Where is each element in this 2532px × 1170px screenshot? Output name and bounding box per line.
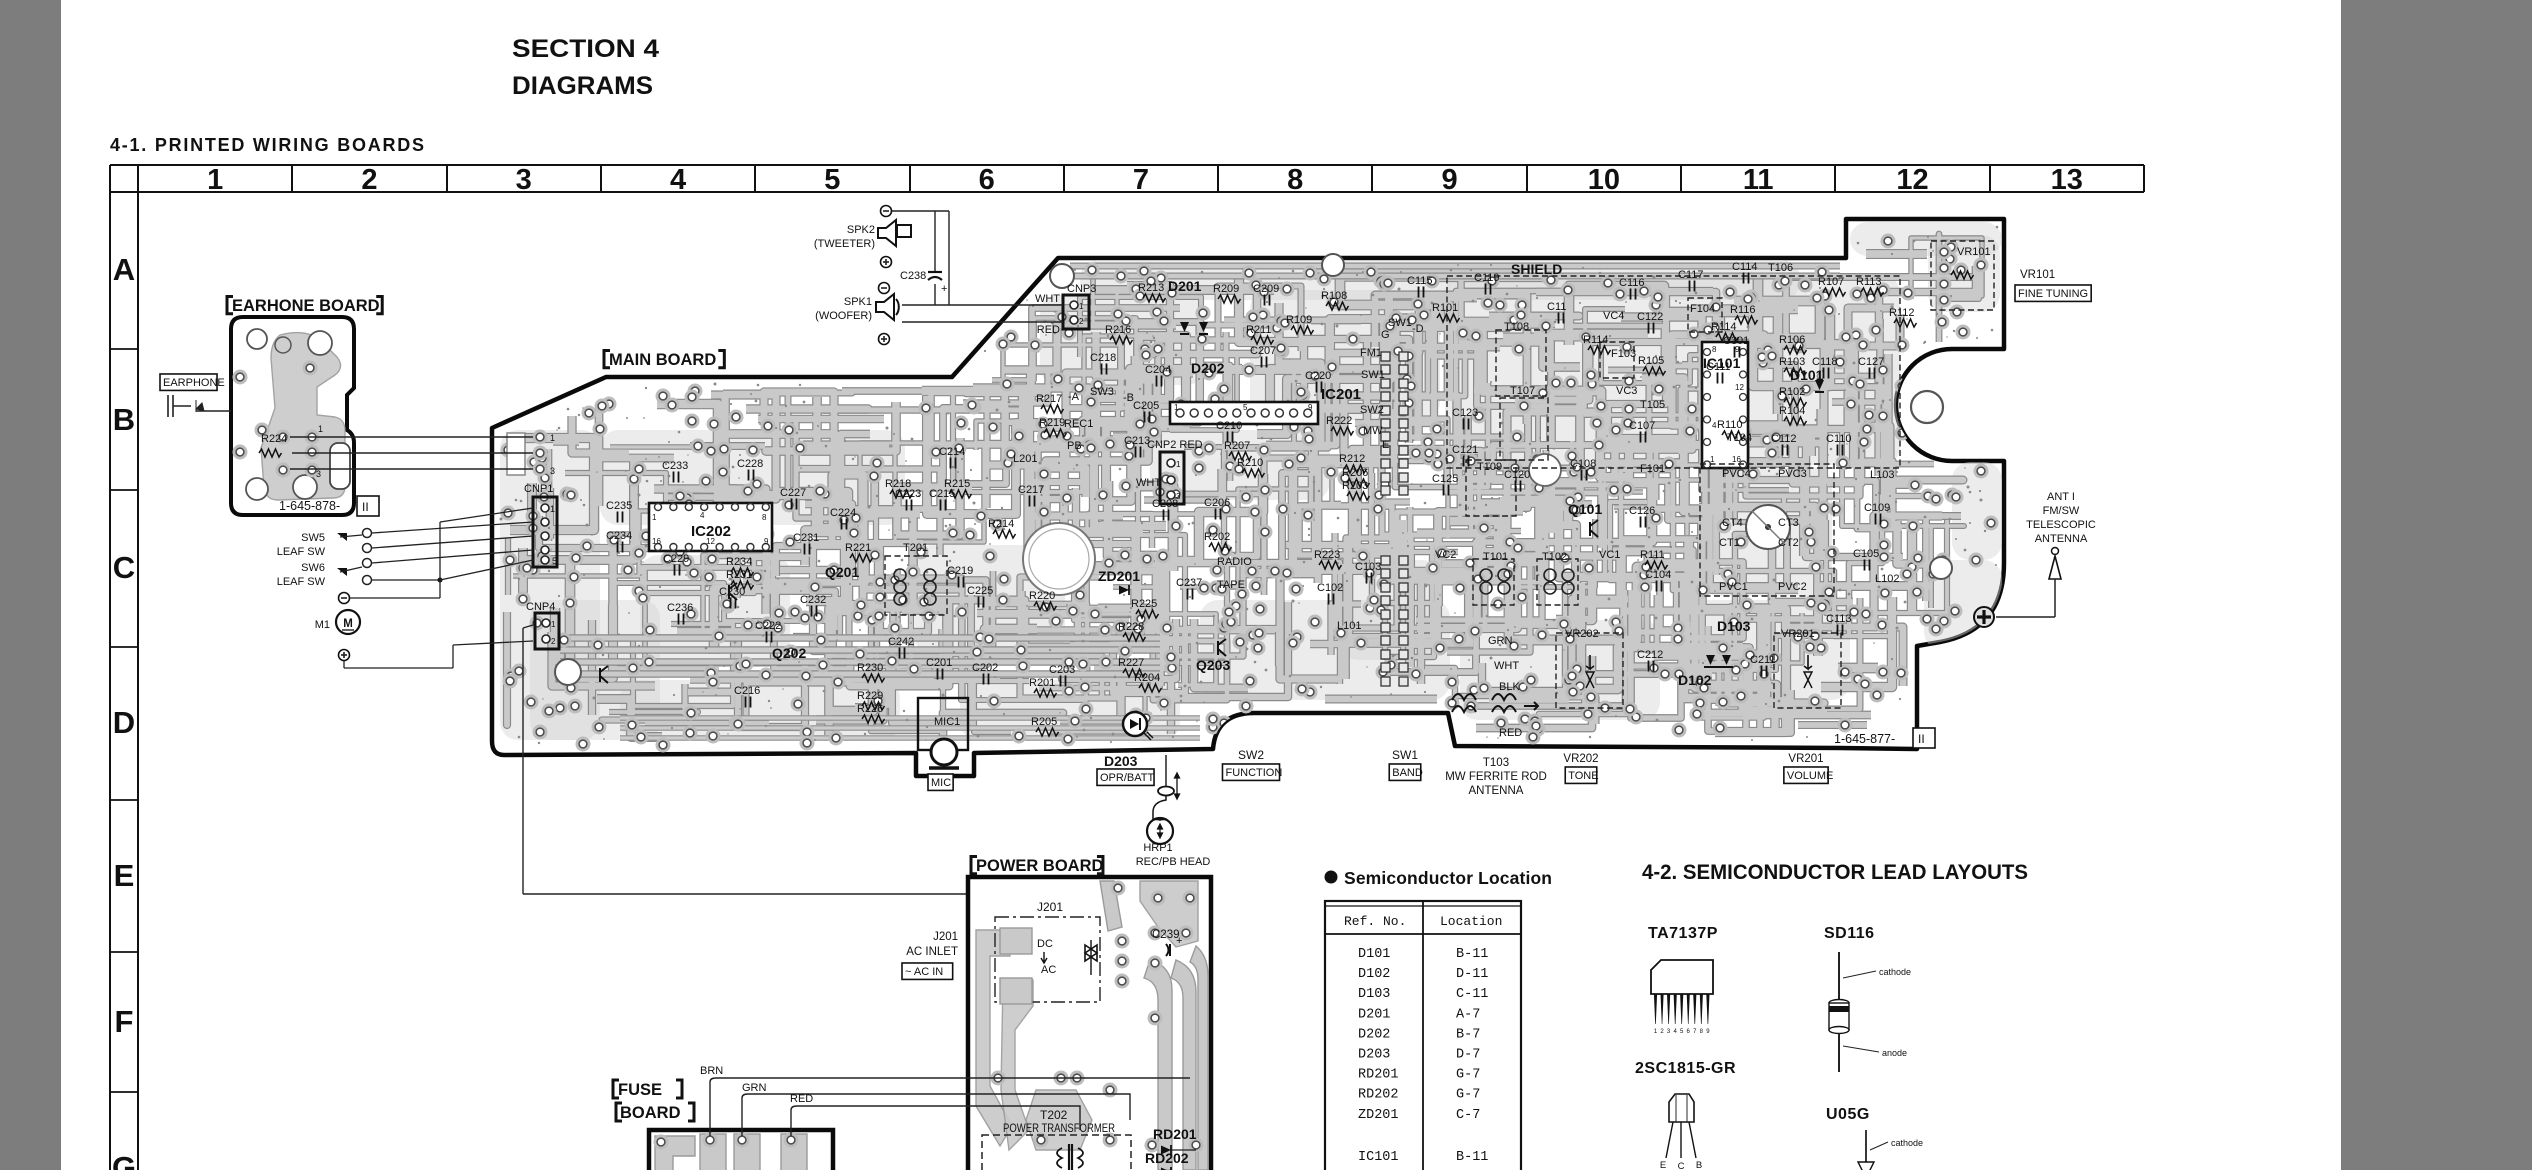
- svg-text:FM1: FM1: [1360, 347, 1382, 359]
- J201 dash-dot box: [995, 917, 1100, 1002]
- svg-text:C126: C126: [1629, 505, 1655, 517]
- power board title: [971, 856, 977, 873]
- svg-text:3: 3: [550, 466, 555, 476]
- svg-text:C214: C214: [939, 446, 965, 458]
- connector CNP3: [1063, 295, 1089, 329]
- svg-text:C11: C11: [1547, 301, 1566, 313]
- VR101 dashed box: [1931, 241, 1994, 310]
- large hole center speaker area: [1023, 523, 1095, 595]
- EARPHONE jack label: [160, 374, 217, 390]
- potentiometer VR202 dashed box: [1556, 633, 1623, 708]
- svg-text:GRN: GRN: [1488, 635, 1513, 647]
- power board copper areas: [976, 881, 1208, 1170]
- svg-text:T106: T106: [1768, 262, 1793, 274]
- svg-text:RD202: RD202: [1358, 1088, 1399, 1103]
- svg-text:-A: -A: [1068, 391, 1080, 403]
- speckle dots: [500, 226, 1999, 748]
- svg-text:RED: RED: [1037, 324, 1060, 336]
- svg-text:VR202: VR202: [1565, 628, 1599, 640]
- svg-text:R101: R101: [1432, 302, 1458, 314]
- svg-text:1: 1: [1174, 403, 1179, 412]
- svg-text:8: 8: [762, 513, 767, 522]
- svg-text:LEAF SW: LEAF SW: [277, 576, 326, 588]
- svg-text:BRN: BRN: [700, 1065, 723, 1077]
- svg-text:5: 5: [824, 164, 840, 196]
- svg-text:T105: T105: [1640, 399, 1665, 411]
- svg-text:D101: D101: [1358, 947, 1390, 962]
- svg-text:L201: L201: [1013, 453, 1037, 465]
- svg-text:C125: C125: [1432, 473, 1458, 485]
- svg-text:E: E: [1660, 1160, 1666, 1170]
- svg-text:C227: C227: [780, 487, 806, 499]
- svg-text:R102: R102: [1779, 386, 1805, 398]
- svg-text:CNP4: CNP4: [526, 601, 555, 613]
- svg-text:VOLUME: VOLUME: [1787, 770, 1833, 782]
- svg-text:R219: R219: [1039, 417, 1065, 429]
- svg-text:C121: C121: [1452, 444, 1478, 456]
- svg-text:T102: T102: [1542, 551, 1567, 563]
- svg-text:PB: PB: [1067, 440, 1082, 452]
- svg-text:Ref. No.: Ref. No.: [1344, 914, 1406, 929]
- svg-text:RD201: RD201: [1358, 1068, 1399, 1083]
- svg-text:C103: C103: [1355, 561, 1381, 573]
- svg-text:C237: C237: [1176, 577, 1202, 589]
- svg-text:(TWEETER): (TWEETER): [814, 238, 875, 250]
- REC/PB head symbol HRP1: [1147, 818, 1173, 844]
- svg-text:R202: R202: [1204, 531, 1230, 543]
- svg-text:SW1: SW1: [1388, 317, 1412, 329]
- svg-text:HRP1: HRP1: [1143, 842, 1172, 854]
- earhone board pads: [233, 370, 248, 385]
- svg-text:MW FERRITE ROD: MW FERRITE ROD: [1445, 771, 1547, 783]
- grid row letter column: [109, 165, 111, 1170]
- svg-text:Location: Location: [1440, 914, 1502, 929]
- filter F103 dashed box: [1600, 342, 1634, 378]
- svg-text:D202: D202: [1191, 360, 1225, 376]
- T103 ferrite rod coils: [1452, 694, 1516, 700]
- svg-text:II: II: [362, 500, 369, 514]
- connector CNP1: [533, 497, 557, 567]
- svg-text:E: E: [114, 858, 135, 893]
- svg-text:ANTENNA: ANTENNA: [2035, 533, 2088, 545]
- svg-text:T108: T108: [1504, 321, 1529, 333]
- svg-text:C213: C213: [1124, 435, 1150, 447]
- svg-text:C-7: C-7: [1456, 1108, 1480, 1123]
- svg-text:CNP2 RED: CNP2 RED: [1147, 439, 1203, 451]
- hole in right notch: [1911, 391, 1943, 423]
- svg-text:R106: R106: [1779, 334, 1805, 346]
- svg-text:R209: R209: [1213, 283, 1239, 295]
- left scan margin bar: [0, 0, 61, 1170]
- svg-text:R228: R228: [1118, 621, 1144, 633]
- earhone board holes: [247, 329, 267, 349]
- svg-text:T107: T107: [1510, 385, 1535, 397]
- svg-text:C225: C225: [967, 585, 993, 597]
- svg-text:R204: R204: [1134, 672, 1160, 684]
- svg-text:9: 9: [1441, 164, 1457, 196]
- svg-text:C120: C120: [1504, 469, 1530, 481]
- svg-text:AC INLET: AC INLET: [906, 946, 958, 958]
- IC202 outline: [649, 503, 772, 551]
- MIC1 black rect: [918, 698, 968, 750]
- svg-text:AC: AC: [1041, 964, 1056, 976]
- svg-text:T109: T109: [1477, 461, 1502, 473]
- svg-text:RED: RED: [790, 1093, 813, 1105]
- svg-text:VR101: VR101: [2020, 269, 2055, 281]
- svg-text:CT2: CT2: [1778, 537, 1799, 549]
- svg-text:OPR/BATT: OPR/BATT: [1100, 772, 1154, 784]
- svg-text:WHT: WHT: [1136, 477, 1161, 489]
- svg-text:C201: C201: [926, 657, 952, 669]
- svg-text:C112: C112: [1771, 433, 1796, 445]
- svg-text:DIAGRAMS: DIAGRAMS: [512, 72, 653, 100]
- svg-text:M: M: [343, 618, 353, 630]
- wires earhone to main board: [196, 410, 231, 412]
- svg-text:C122: C122: [1637, 311, 1663, 323]
- svg-text:C127: C127: [1858, 356, 1884, 368]
- svg-text:LEAF SW: LEAF SW: [277, 546, 326, 558]
- svg-text:D: D: [113, 705, 135, 740]
- svg-text:1-645-878-: 1-645-878-: [279, 499, 340, 513]
- svg-text:VC3: VC3: [1616, 385, 1637, 397]
- power board outline: [968, 877, 1211, 1170]
- solder pads: [1531, 722, 1546, 737]
- svg-text:C210: C210: [1216, 420, 1242, 432]
- svg-text:J201: J201: [1037, 900, 1063, 914]
- svg-text:CT3: CT3: [1778, 517, 1799, 529]
- svg-text:~ AC IN: ~ AC IN: [905, 966, 943, 978]
- svg-text:C110: C110: [1826, 433, 1851, 445]
- fuse board copper: [655, 1136, 695, 1170]
- svg-text:G-7: G-7: [1456, 1088, 1480, 1103]
- svg-text:RD201: RD201: [1153, 1126, 1197, 1142]
- long bus traces: [560, 634, 1160, 642]
- svg-text:C219: C219: [947, 565, 973, 577]
- plus terminal: [339, 650, 350, 661]
- azimuth screw ellipse: [1158, 787, 1174, 796]
- svg-text:R116: R116: [1730, 304, 1755, 316]
- svg-text:R110: R110: [1717, 419, 1742, 431]
- transistor Q203 symbol: [1218, 639, 1226, 656]
- diodes D103 D102 symbols: [1706, 655, 1715, 665]
- connector CNP4: [535, 613, 559, 649]
- T202 windings: [1057, 1148, 1083, 1168]
- svg-text:6: 6: [979, 164, 995, 196]
- svg-text:C220: C220: [1305, 370, 1331, 382]
- svg-text:IC201: IC201: [1321, 386, 1361, 403]
- SD116 diode drawing: [1838, 952, 1840, 1001]
- svg-text:R203: R203: [1342, 480, 1368, 492]
- svg-text:RD202: RD202: [1145, 1150, 1189, 1166]
- svg-text:C234: C234: [606, 530, 632, 542]
- diode D201 symbol: [1180, 322, 1189, 332]
- svg-text:C119: C119: [1474, 272, 1499, 284]
- svg-text:C115: C115: [1407, 275, 1432, 287]
- svg-text:C301: C301: [1723, 335, 1749, 347]
- pads 1,3 to earhone board: [533, 430, 548, 445]
- svg-text:C223: C223: [895, 488, 921, 500]
- svg-text:C205: C205: [1133, 400, 1159, 412]
- transformer T201 dashed box: [885, 556, 947, 615]
- svg-text:C-11: C-11: [1456, 987, 1488, 1002]
- svg-text:R207: R207: [1224, 440, 1250, 452]
- svg-text:D203: D203: [1358, 1048, 1390, 1063]
- transistor Q201 symbol: [729, 583, 737, 600]
- svg-text:MIC1: MIC1: [934, 716, 960, 728]
- svg-text:C212: C212: [1637, 649, 1663, 661]
- svg-text:R222: R222: [1326, 415, 1352, 427]
- svg-text:R234: R234: [726, 556, 752, 568]
- LED D203 on board: [1123, 712, 1147, 736]
- svg-text:TA7137P: TA7137P: [1648, 925, 1718, 942]
- AC/DC switch symbol: [1085, 945, 1097, 961]
- MIC boxed label: [928, 774, 953, 790]
- svg-text:1: 1: [652, 513, 657, 522]
- svg-text:4-1. PRINTED WIRING BOARDS: 4-1. PRINTED WIRING BOARDS: [110, 135, 424, 155]
- svg-text:1: 1: [207, 164, 223, 196]
- white slot left edge: [507, 433, 525, 475]
- svg-text:VR201: VR201: [1788, 753, 1823, 765]
- svg-text:F103: F103: [1611, 348, 1636, 360]
- main board title: [604, 350, 610, 367]
- VR202 potentiometer symbol: [1586, 655, 1594, 669]
- svg-text:MW: MW: [1363, 425, 1383, 437]
- transistor Q101 symbol: [1590, 520, 1598, 537]
- MIC1 microphone circle: [931, 739, 957, 765]
- svg-text:C228: C228: [737, 458, 763, 470]
- svg-text:3: 3: [316, 469, 321, 479]
- svg-text:B-11: B-11: [1456, 947, 1488, 962]
- hole bottom right patch: [1930, 557, 1952, 579]
- svg-text:C116: C116: [1619, 277, 1644, 289]
- svg-text:D103: D103: [1358, 987, 1390, 1002]
- svg-text:+: +: [941, 283, 947, 295]
- OPR/BATT boxed label: [1097, 769, 1154, 785]
- transformer T101 dashed box: [1473, 559, 1514, 605]
- svg-text:C117: C117: [1678, 269, 1703, 281]
- svg-text:SW1: SW1: [1392, 748, 1418, 762]
- svg-text:CNP1: CNP1: [524, 483, 553, 495]
- svg-text:SW2: SW2: [1360, 404, 1384, 416]
- svg-text:SW1: SW1: [1361, 369, 1385, 381]
- svg-text:L101: L101: [1337, 620, 1361, 632]
- svg-text:SECTION 4: SECTION 4: [512, 35, 659, 63]
- svg-text:C: C: [113, 550, 135, 585]
- svg-text:9: 9: [764, 537, 769, 546]
- minus terminal: [339, 593, 350, 604]
- mounting hole top left of board: [1050, 264, 1074, 288]
- svg-text:C104: C104: [1645, 569, 1671, 581]
- svg-text:1: 1: [318, 424, 323, 434]
- svg-text:D101: D101: [1790, 367, 1824, 383]
- TA7137P package drawing: [1651, 960, 1713, 994]
- svg-text:PVC3: PVC3: [1778, 468, 1807, 480]
- svg-text:VR202: VR202: [1563, 753, 1598, 765]
- earhone board copper blob: [261, 333, 345, 500]
- IC201 sip strip: [1170, 402, 1318, 424]
- svg-text:R226: R226: [857, 703, 883, 715]
- svg-text:R212: R212: [1339, 453, 1365, 465]
- svg-text:ANT I: ANT I: [2047, 491, 2075, 503]
- svg-text:ZD201: ZD201: [1358, 1108, 1399, 1123]
- svg-text:G: G: [1381, 329, 1390, 341]
- svg-text:G-7: G-7: [1456, 1068, 1480, 1083]
- svg-text:R112: R112: [1889, 307, 1914, 319]
- svg-text:T202: T202: [1040, 1108, 1068, 1122]
- svg-text:T201: T201: [903, 542, 928, 554]
- svg-text:F104: F104: [1690, 303, 1715, 315]
- svg-text:C231: C231: [793, 532, 819, 544]
- head wire jog: [1153, 795, 1166, 820]
- wire from OPR/BATT to head: [1165, 755, 1167, 786]
- svg-text:F: F: [115, 1004, 134, 1039]
- svg-text:D-11: D-11: [1456, 967, 1488, 982]
- svg-text:C108: C108: [1570, 458, 1596, 470]
- svg-text:C207: C207: [1250, 345, 1276, 357]
- svg-text:B-7: B-7: [1456, 1027, 1480, 1042]
- svg-text:C123: C123: [1452, 407, 1478, 419]
- svg-text:Q201: Q201: [825, 564, 859, 580]
- svg-text:R229: R229: [857, 690, 883, 702]
- svg-text:4: 4: [700, 511, 705, 520]
- svg-text:R227: R227: [1118, 657, 1144, 669]
- svg-text:SPK2: SPK2: [847, 224, 875, 236]
- earhone board outline: [231, 317, 354, 515]
- tuning capacitor PVC/CT dashed box: [1700, 464, 1834, 596]
- screw terminal bottom right: [1974, 607, 1994, 627]
- svg-text:B-11: B-11: [1456, 1150, 1488, 1165]
- svg-text:C107: C107: [1629, 420, 1655, 432]
- svg-text:FINE TUNING: FINE TUNING: [2018, 288, 2088, 300]
- svg-text:C105: C105: [1853, 548, 1879, 560]
- svg-text:R114: R114: [1583, 334, 1608, 346]
- svg-text:C: C: [1678, 1161, 1685, 1170]
- diode D101 symbol: [1815, 380, 1824, 390]
- connector CNP2: [1160, 452, 1184, 504]
- svg-text:A-7: A-7: [1456, 1007, 1480, 1022]
- 2SC1815 transistor drawing: [1669, 1094, 1694, 1122]
- svg-text:7: 7: [1133, 164, 1149, 196]
- svg-text:M1: M1: [315, 619, 330, 631]
- svg-text:B: B: [113, 402, 135, 437]
- svg-text:VC2: VC2: [1435, 549, 1456, 561]
- svg-text:SW3: SW3: [1090, 386, 1114, 398]
- svg-text:R221: R221: [845, 542, 871, 554]
- svg-text:C216: C216: [734, 685, 760, 697]
- svg-text:G: G: [112, 1150, 136, 1170]
- right scan margin bar: [2341, 0, 2532, 1170]
- AC IN boxed label: [902, 963, 953, 979]
- svg-text:R107: R107: [1818, 276, 1844, 288]
- svg-text:R206: R206: [1342, 467, 1368, 479]
- svg-text:D102: D102: [1678, 672, 1712, 688]
- svg-text:TONE: TONE: [1568, 770, 1598, 782]
- location table: [1325, 901, 1521, 1170]
- svg-text:C224: C224: [830, 507, 856, 519]
- transformer T107 dashed box: [1500, 398, 1548, 460]
- svg-text:C202: C202: [972, 662, 998, 674]
- svg-text:E: E: [1382, 439, 1389, 451]
- svg-text:REC/PB HEAD: REC/PB HEAD: [1136, 856, 1211, 868]
- svg-text:C206: C206: [1204, 497, 1230, 509]
- svg-text:SD116: SD116: [1824, 925, 1875, 942]
- filter F104 dashed box: [1688, 298, 1722, 332]
- svg-text:10: 10: [1588, 164, 1620, 196]
- svg-text:EARPHONE: EARPHONE: [163, 377, 225, 389]
- svg-text:BAND: BAND: [1392, 767, 1423, 779]
- svg-text:IC202: IC202: [691, 523, 731, 540]
- svg-text:DC: DC: [1037, 938, 1053, 950]
- svg-text:13: 13: [2051, 164, 2083, 196]
- svg-text:REC1: REC1: [1064, 418, 1093, 430]
- U05G diode drawing (top portion): [1865, 1130, 1867, 1162]
- svg-text:Q101: Q101: [1568, 501, 1602, 517]
- zener ZD201 symbol: [1119, 585, 1129, 595]
- svg-text:9: 9: [1308, 403, 1313, 412]
- svg-text:POWER BOARD: POWER BOARD: [976, 857, 1104, 875]
- svg-text:R104: R104: [1779, 405, 1805, 417]
- svg-text:FUNCTION: FUNCTION: [1225, 767, 1282, 779]
- svg-text:D203: D203: [1104, 753, 1138, 769]
- svg-text:8: 8: [1712, 345, 1717, 354]
- svg-text:2: 2: [361, 164, 377, 196]
- svg-text:R215: R215: [944, 478, 970, 490]
- svg-text:D201: D201: [1358, 1007, 1390, 1022]
- svg-text:Q202: Q202: [772, 645, 806, 661]
- svg-text:D-7: D-7: [1456, 1048, 1480, 1063]
- svg-text:BLK: BLK: [1499, 681, 1520, 693]
- grid header frame: [110, 164, 2144, 166]
- svg-text:L103: L103: [1870, 469, 1894, 481]
- svg-text:12: 12: [1735, 383, 1744, 392]
- svg-text:16: 16: [1732, 455, 1741, 464]
- svg-text:2: 2: [551, 637, 556, 646]
- svg-text:3: 3: [516, 164, 532, 196]
- transformer T108 dashed box: [1496, 330, 1546, 396]
- svg-text:12: 12: [1896, 164, 1928, 196]
- T202 power transformer dashed box: [982, 1135, 1131, 1170]
- svg-text:R230: R230: [857, 662, 883, 674]
- svg-text:PVC1: PVC1: [1719, 581, 1748, 593]
- mounting hole lower left: [555, 659, 581, 685]
- svg-text:C230: C230: [719, 586, 745, 598]
- svg-text:VC4: VC4: [1603, 310, 1624, 322]
- svg-text:B: B: [1696, 1160, 1702, 1170]
- svg-text:R216: R216: [1105, 324, 1131, 336]
- svg-text:L102: L102: [1875, 573, 1899, 585]
- svg-text:C109: C109: [1864, 502, 1890, 514]
- svg-text:R224: R224: [261, 433, 287, 445]
- svg-text:II: II: [1918, 732, 1925, 746]
- copper trace texture: [600, 430, 905, 525]
- svg-text:cathode: cathode: [1891, 1138, 1923, 1148]
- svg-text:ZD201: ZD201: [1098, 568, 1140, 584]
- potentiometer VR201 dashed box: [1774, 633, 1841, 708]
- svg-text:MIC: MIC: [931, 777, 951, 789]
- svg-text:R217: R217: [1036, 393, 1062, 405]
- svg-text:PVC4: PVC4: [1722, 468, 1751, 480]
- shield dashed outline: [1447, 276, 1900, 468]
- svg-text:SW2: SW2: [1238, 748, 1264, 762]
- svg-text:U05G: U05G: [1826, 1106, 1870, 1123]
- svg-text:C233: C233: [662, 460, 688, 472]
- svg-text:C242: C242: [888, 636, 914, 648]
- gray pad blocks in J201: [1000, 928, 1032, 954]
- svg-text:R109: R109: [1286, 314, 1312, 326]
- svg-text:R201: R201: [1029, 677, 1055, 689]
- svg-text:CT1: CT1: [1719, 537, 1740, 549]
- svg-text:C236: C236: [667, 602, 693, 614]
